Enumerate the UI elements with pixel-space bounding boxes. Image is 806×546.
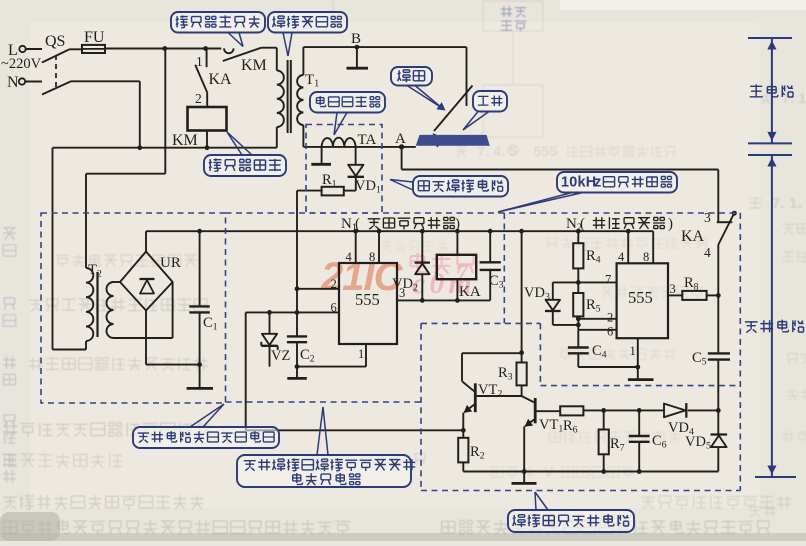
svg-text:.: . [501,143,505,159]
dashed box maintain welding circuit [306,125,382,214]
callout maintain welding [390,176,508,197]
wire [276,48,278,71]
svg-text:1: 1 [630,344,636,358]
junction [197,229,202,234]
svg-text:3: 3 [670,282,676,296]
ground [628,367,654,380]
relay contact KA 3-4 [681,210,736,260]
node N2 label [566,216,673,234]
pin 4 [618,231,628,264]
junction [455,298,460,303]
svg-text:8: 8 [369,250,375,264]
capacitor C5 [692,350,730,410]
capacitor C3 [480,231,504,300]
resistor R7 [599,410,625,471]
junction [197,362,202,367]
terminal N [7,74,42,91]
junction [377,229,382,234]
junction [137,145,142,150]
wire L to T2 [86,49,165,269]
svg-text:0: 0 [569,175,577,191]
wire N to T2 [53,148,87,350]
resistor R2 [458,430,484,471]
ground [512,472,537,484]
junction [295,310,300,315]
junction [295,364,300,369]
pin 8 [369,231,379,264]
wire [717,170,719,222]
svg-text:.: . [780,195,784,212]
pin 1 [630,338,638,367]
svg-text:KM: KM [172,132,198,149]
wire [717,295,719,353]
svg-text:2: 2 [331,277,337,291]
callout electrode [391,67,446,111]
pin 6 [246,301,339,315]
diode VD3 [524,282,578,325]
callout 10kHz signal generator [498,172,677,212]
wire [114,282,173,338]
control circuit extent arrow [748,155,796,477]
capacitor C1 [189,231,217,364]
junction [162,46,167,51]
svg-text:6: 6 [607,325,613,339]
wire [297,190,322,192]
junction [716,408,721,413]
svg-text:6: 6 [331,301,337,315]
junction [455,229,460,234]
junction [716,293,721,298]
junction [519,350,524,355]
ground [347,47,369,68]
svg-text:7: 7 [605,273,611,287]
resistor R8 [682,275,718,300]
svg-text:~220V: ~220V [1,56,42,72]
wire ground rail [463,471,718,473]
junction [601,469,606,474]
junction [601,408,606,413]
pin 2 [578,311,616,325]
junction [203,46,208,51]
capacitor C6 [629,410,667,471]
wire [206,131,208,148]
callout workpiece [463,91,507,130]
label control circuit [745,320,804,333]
wire B line [303,46,466,48]
wire [477,395,522,397]
wire [583,409,664,411]
svg-text:QS: QS [45,33,65,50]
junction [637,469,642,474]
relay contact KA 1-2 [195,49,232,108]
label ~220V [1,56,42,72]
pin 2 [297,277,339,291]
callout current transformer [310,92,385,135]
svg-text:4: 4 [704,245,711,260]
capacitor C4 [568,330,638,367]
junction [576,280,581,285]
junction [461,428,466,433]
diode VD2 [392,231,430,300]
wire [355,147,357,165]
wire VCC rail [146,230,653,232]
wire [114,281,121,283]
transistor VT1 [522,396,564,472]
ground [287,367,307,379]
svg-text:VZ: VZ [271,348,290,364]
junction [626,229,631,234]
callout DC rectifier supply [133,404,279,448]
junction [522,469,527,474]
dashed box electronic relay / control sections [226,213,741,491]
junction [420,298,425,303]
node A [395,131,406,150]
wire [717,245,719,296]
current transformer TA [322,132,377,148]
pin 3 [668,282,682,296]
svg-text:UR: UR [160,255,181,271]
diode VD4 [664,403,718,438]
svg-text:KA: KA [209,71,233,88]
svg-text:z: z [594,175,601,191]
callout welding start control [508,492,634,532]
svg-text:4: 4 [618,250,625,264]
label main circuit [750,84,793,97]
bridge rectifier UR [120,252,181,311]
callout contactor coil [204,132,286,176]
capacitor C2 [287,312,315,366]
wire [462,353,522,381]
wire [145,231,147,251]
resistor R1 [322,172,344,195]
wire R1 to N1 input [296,191,298,313]
node N1 label [341,216,460,234]
junction [267,310,272,315]
wire to starter [246,312,464,430]
svg-text:5: 5 [542,143,550,159]
svg-text:KA: KA [459,284,481,300]
wire [402,169,719,171]
junction [420,229,425,234]
contactor main contact KM [223,48,267,74]
svg-text:): ) [668,216,673,232]
transistor VT2 [462,382,502,431]
workpiece [416,135,490,146]
terminal L [8,42,42,59]
svg-text:N: N [7,74,19,91]
svg-text:(: ( [580,216,585,232]
pin 3 [397,286,490,300]
junction [576,229,581,234]
callout electronic relay [237,407,415,487]
resistor R5 [573,282,600,329]
wire [401,147,403,170]
wire [297,366,366,368]
main circuit extent arrow [748,38,792,143]
svg-text:1: 1 [798,90,806,106]
timer N2 555 [617,263,668,338]
wire [53,147,277,149]
svg-text:): ) [455,216,460,232]
callout contactor main contact [171,12,265,47]
welding electrode [433,86,473,148]
pin 1 [358,344,366,367]
wire N line [71,81,140,147]
wire [344,177,356,190]
junction [637,408,642,413]
svg-text:1: 1 [561,175,569,191]
resistor R4 [573,231,600,282]
fuse FU [82,29,105,53]
wire VCC to starter [521,231,523,353]
diode VD5 [685,410,727,471]
svg-text:B: B [351,31,361,47]
svg-text:2: 2 [607,311,613,325]
junction [205,145,210,150]
timer N1 555 [339,263,397,344]
svg-text:FU: FU [84,29,105,46]
svg-text:V: V [544,464,554,481]
svg-text:2: 2 [195,91,202,106]
wire [302,47,304,75]
junction [488,229,493,234]
wire [321,147,323,164]
svg-text:1: 1 [358,347,364,361]
ground [311,163,331,166]
relay coil KA [437,231,481,300]
contactor coil KM [172,107,227,149]
pin 7 [578,273,616,287]
svg-text:7: 7 [772,195,780,212]
resistor R6 [560,406,583,435]
svg-text:4: 4 [346,250,353,264]
svg-text:5: 5 [550,143,558,159]
svg-text:5: 5 [534,143,542,159]
svg-text:555: 555 [628,288,653,307]
wire L line [105,48,221,50]
svg-text:KM: KM [241,57,267,74]
callout welding transformer [268,12,347,56]
wire [466,47,468,106]
ground [187,365,213,389]
transformer T2 [86,262,114,350]
svg-text:1: 1 [196,54,203,69]
wire [146,311,200,365]
svg-text:8: 8 [643,250,649,264]
junction [519,229,524,234]
wire [69,48,82,50]
svg-text:.: . [798,195,802,212]
svg-text:KA: KA [681,228,705,245]
zener diode VZ [261,312,290,366]
pin 4 [346,231,356,264]
wire A line [303,146,415,148]
wire [261,47,277,49]
svg-text:1: 1 [789,195,797,212]
svg-text:(: ( [355,216,360,232]
junction [295,286,300,291]
pin 6 [578,325,616,339]
dashed box control rectifier supply [41,213,226,403]
switch QS [42,33,71,95]
transformer T1 [277,60,319,148]
svg-text:555: 555 [355,290,380,309]
resistor R3 [498,353,527,396]
diode VD1 [348,165,381,196]
junction [576,323,581,328]
pin 8 [643,231,653,264]
junction [635,365,640,370]
junction [576,316,581,321]
svg-text:TA: TA [358,132,377,148]
svg-text:4: 4 [493,143,501,159]
junction [353,229,358,234]
wire [302,125,304,147]
node B [351,31,361,49]
svg-text:A: A [395,131,406,147]
